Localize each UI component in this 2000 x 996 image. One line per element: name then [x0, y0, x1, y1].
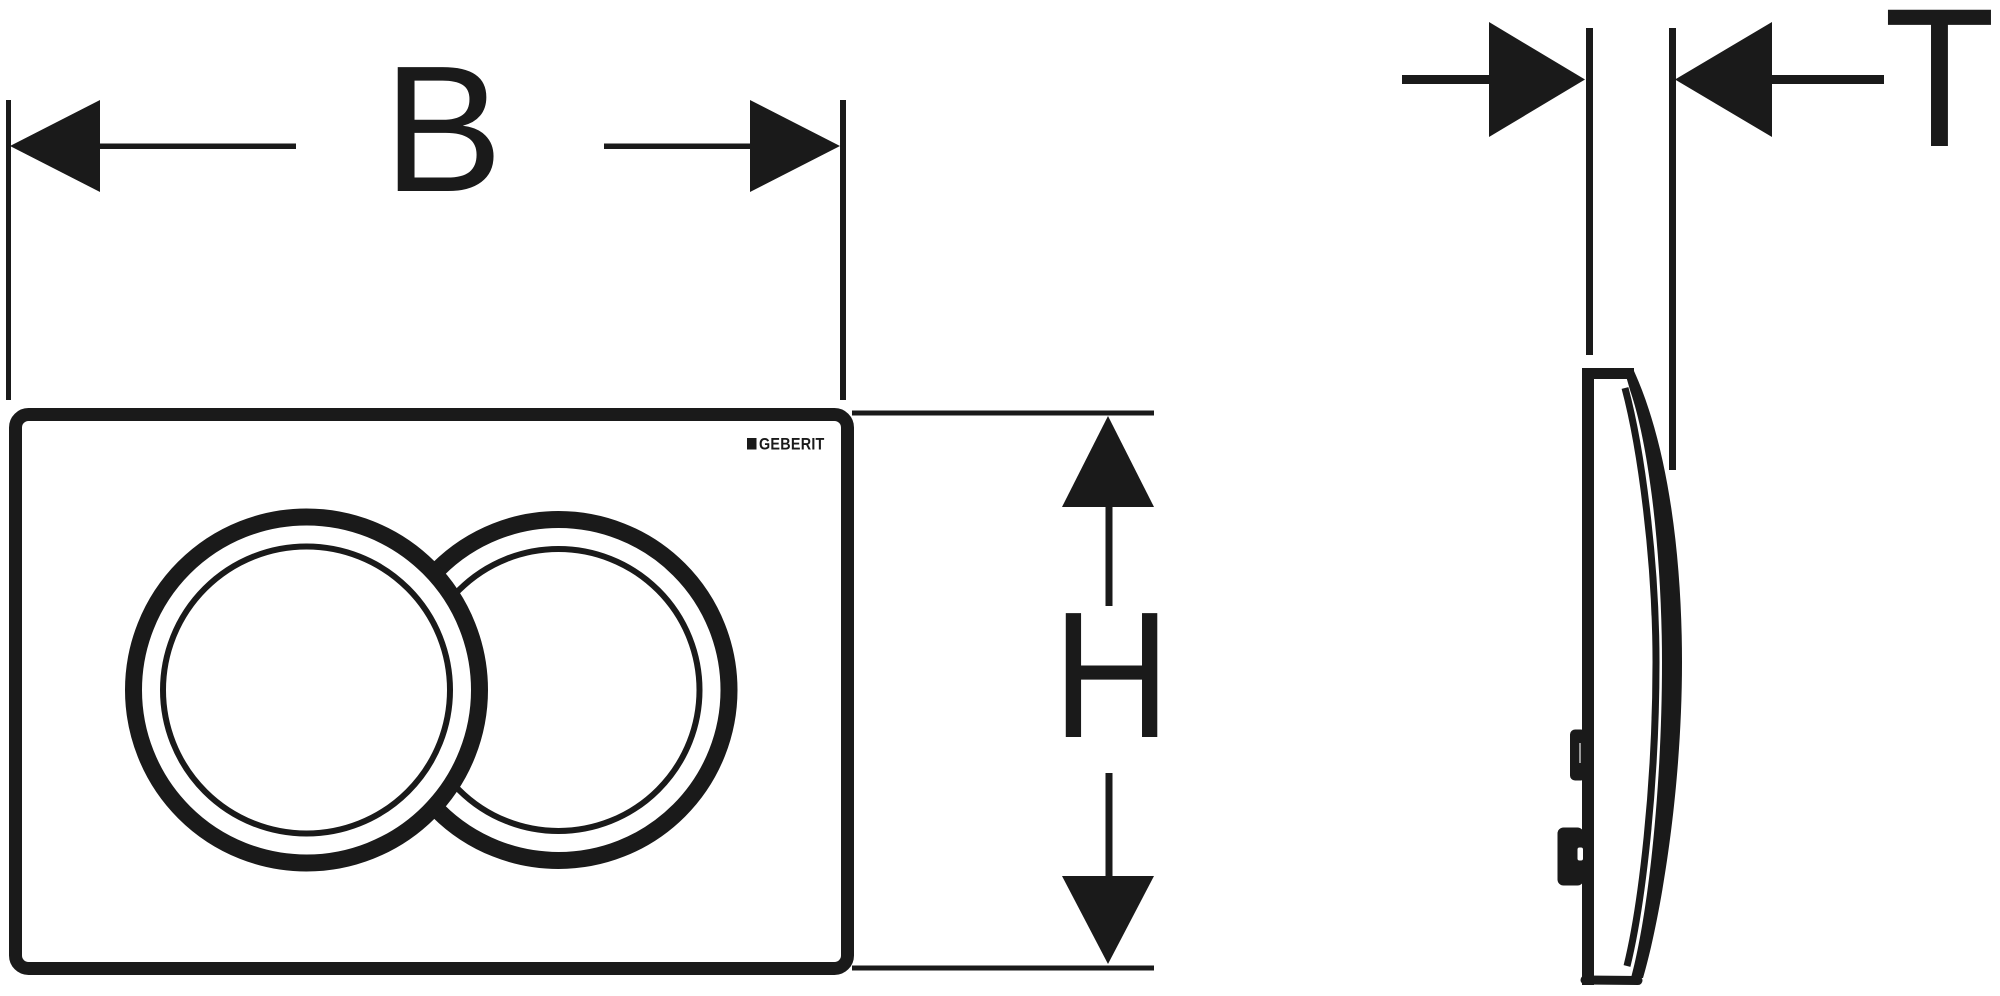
Geberit logo square: [747, 438, 757, 450]
dimension T left arrow line: [1402, 75, 1492, 84]
mounting clip lower notch: [1578, 848, 1584, 861]
svg-text:GEBERIT: GEBERIT: [759, 436, 825, 454]
mounting clip upper notch: [1579, 743, 1581, 763]
dimension H bottom extension line: [852, 966, 1154, 971]
dimension B right arrowhead: [750, 100, 840, 192]
mounting clip upper: [1570, 730, 1586, 781]
dimension H lower leader line: [1106, 773, 1113, 877]
dimension T first extension line: [1586, 28, 1593, 355]
svg-text:H: H: [1052, 575, 1170, 776]
svg-text:T: T: [1884, 0, 1995, 189]
side view profile body: [1588, 373, 1673, 979]
dimension T left arrowhead (points right): [1489, 22, 1585, 137]
right button inner thin ring: [418, 549, 700, 831]
dimension B left arrow line: [96, 144, 296, 150]
side view top edge: [1583, 368, 1634, 379]
dimension H down arrowhead: [1062, 876, 1154, 964]
left button outer ring: [134, 517, 480, 863]
side view bottom edge: [1585, 976, 1638, 986]
dimension T right arrow line: [1772, 75, 1884, 84]
dimension H top extension line: [852, 411, 1154, 416]
side view front face outer band: [1626, 371, 1682, 978]
dimension B right arrow line: [604, 144, 754, 150]
svg-text:B: B: [383, 29, 503, 230]
dimension T second extension line: [1669, 28, 1676, 470]
dimension T right arrowhead (points left): [1675, 22, 1772, 137]
dimension B right extension tick: [840, 100, 846, 400]
left button inner thin ring: [163, 547, 450, 834]
left button white disk: [142, 525, 472, 855]
dimension B left extension tick: [6, 100, 11, 400]
mounting clip lower: [1558, 828, 1584, 886]
dimension H upper leader line: [1106, 505, 1113, 606]
flush plate front view outline: [16, 415, 848, 969]
dimension B left arrowhead: [10, 100, 100, 192]
side view back edge: [1582, 368, 1594, 985]
right button outer ring: [388, 520, 729, 861]
side view front face inner thin line: [1625, 388, 1656, 966]
right button white disk: [379, 510, 739, 870]
dimension H up arrowhead: [1062, 416, 1154, 507]
